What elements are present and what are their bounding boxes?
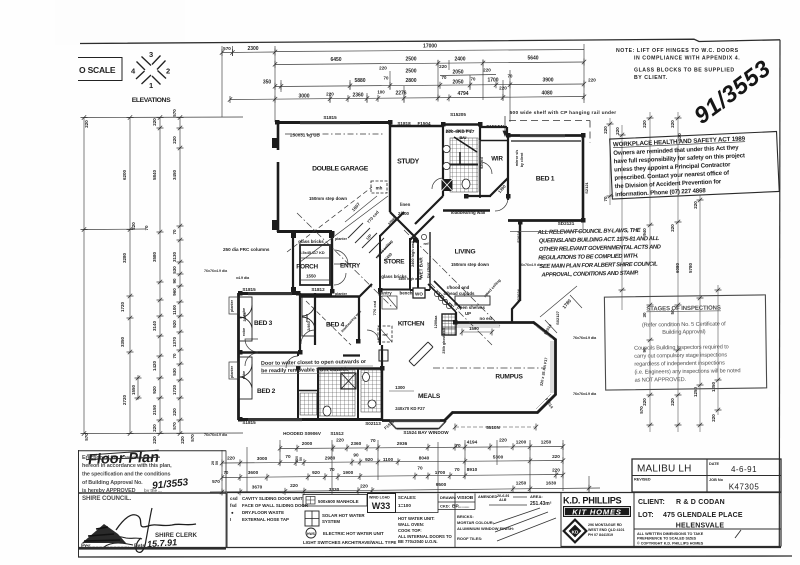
living east wall — [519, 222, 521, 301]
svg-text:5840: 5840 — [152, 169, 157, 180]
svg-text:HOT WATER UNIT:: HOT WATER UNIT: — [398, 516, 435, 521]
svg-text:1: 1 — [149, 81, 153, 90]
svg-text:open shelves: open shelves — [457, 305, 485, 310]
svg-text:2276: 2276 — [395, 91, 406, 97]
ensuite tiled floor — [450, 138, 478, 192]
manhole box — [371, 181, 387, 193]
svg-text:220: 220 — [180, 436, 185, 444]
svg-text:W33: W33 — [372, 501, 391, 511]
svg-text:17000: 17000 — [423, 44, 437, 50]
svg-text:70: 70 — [508, 74, 513, 79]
svg-text:1100: 1100 — [172, 305, 177, 315]
svg-text:PORCH: PORCH — [296, 264, 318, 271]
svg-text:220: 220 — [499, 86, 507, 91]
svg-text:2: 2 — [166, 67, 170, 76]
svg-text:6450: 6450 — [330, 57, 341, 63]
rumpus inner window lines — [455, 325, 553, 411]
svg-text:220: 220 — [552, 454, 560, 459]
bed4 dashed loadbearing diagonal — [306, 301, 351, 345]
svg-text:1420: 1420 — [152, 360, 157, 371]
svg-text:76x76x4.9 dia: 76x76x4.9 dia — [573, 336, 597, 340]
study walls — [390, 125, 443, 128]
svg-text:220→5KD F17: 220→5KD F17 — [446, 128, 473, 133]
svg-text:475 GLENDALE PLACE: 475 GLENDALE PLACE — [663, 512, 743, 519]
svg-text:3280: 3280 — [122, 252, 127, 263]
svg-text:ENTRY: ENTRY — [340, 263, 361, 270]
svg-text:VISIOB: VISIOB — [457, 495, 474, 501]
svg-text:70: 70 — [442, 75, 447, 80]
svg-text:2500: 2500 — [405, 57, 416, 63]
svg-text:3000: 3000 — [298, 94, 309, 100]
svg-text:76x76x4.9 dia: 76x76x4.9 dia — [573, 392, 597, 396]
svg-text:SD2121: SD2121 — [558, 221, 575, 226]
svg-text:DOUBLE GARAGE: DOUBLE GARAGE — [312, 166, 369, 173]
svg-text:3130: 3130 — [172, 251, 177, 262]
svg-text:70: 70 — [370, 438, 376, 443]
workplace health and safety stamp — [610, 131, 780, 199]
svg-text:AMENDED: AMENDED — [478, 495, 497, 499]
svg-text:S2024: S2024 — [516, 288, 521, 300]
svg-text:570: 570 — [223, 46, 231, 51]
svg-text:220: 220 — [552, 468, 560, 473]
svg-text:planter: planter — [335, 292, 348, 296]
svg-text:220: 220 — [152, 118, 157, 126]
svg-text:UP: UP — [465, 311, 471, 316]
svg-text:220: 220 — [336, 438, 344, 443]
eave line below bed1 — [510, 222, 583, 232]
svg-text:2720: 2720 — [122, 394, 127, 405]
svg-text:KITCHEN: KITCHEN — [398, 321, 425, 328]
door to water closet note — [261, 359, 367, 374]
svg-text:3000: 3000 — [257, 456, 268, 461]
svg-text:csd: csd — [230, 496, 238, 501]
svg-text:1500: 1500 — [469, 326, 479, 331]
ensuite fixtures — [443, 145, 450, 152]
svg-text:220: 220 — [152, 424, 157, 432]
svg-text:70: 70 — [454, 467, 460, 472]
svg-text:IN COMPLIANCE WITH APPENDIX 4.: IN COMPLIANCE WITH APPENDIX 4. — [634, 56, 740, 62]
svg-text:3670: 3670 — [252, 485, 263, 490]
wir walls — [480, 127, 507, 136]
svg-text:570: 570 — [212, 479, 220, 484]
svg-text:250 dia FRC columns: 250 dia FRC columns — [223, 247, 270, 252]
approval block frame — [78, 450, 226, 557]
svg-text:90: 90 — [172, 278, 177, 284]
svg-text:the specification and the cond: the specification and the conditions — [82, 472, 170, 478]
svg-text:R & D CODAN: R & D CODAN — [676, 499, 725, 506]
svg-text:2936: 2936 — [397, 441, 408, 446]
svg-text:KD: KD — [572, 530, 579, 535]
svg-text:220: 220 — [603, 126, 608, 134]
svg-text:150mm step down: 150mm step down — [309, 196, 347, 201]
svg-text:DRAWN:: DRAWN: — [440, 495, 456, 500]
svg-text:.........: ......... — [459, 504, 469, 509]
svg-text:S1815: S1815 — [242, 287, 256, 292]
svg-text:570: 570 — [639, 406, 644, 414]
svg-text:70: 70 — [603, 196, 608, 202]
porch inner walls — [300, 245, 330, 285]
svg-text:HWS: HWS — [307, 532, 316, 536]
svg-text:1720: 1720 — [172, 384, 177, 395]
svg-text:CKD:: CKD: — [440, 504, 450, 509]
drawing frame top border — [80, 39, 780, 43]
svg-text:570: 570 — [190, 434, 195, 442]
svg-text:ROOF TILES:: ROOF TILES: — [457, 536, 482, 541]
svg-text:5510N: 5510N — [486, 425, 500, 430]
svg-text:K47305: K47305 — [729, 483, 760, 492]
svg-text:250x31 kg UB: 250x31 kg UB — [290, 133, 321, 138]
svg-text:220: 220 — [615, 127, 620, 135]
svg-text:by client: by client — [520, 152, 524, 167]
svg-text:220: 220 — [84, 120, 89, 128]
svg-text:bench: bench — [400, 291, 413, 296]
legend texts left column — [230, 496, 309, 522]
svg-text:LIVING: LIVING — [455, 249, 476, 256]
svg-text:O SCALE: O SCALE — [79, 65, 116, 75]
svg-text:530: 530 — [172, 266, 177, 274]
svg-text:GLASS BLOCKS TO BE SUPPLIED: GLASS BLOCKS TO BE SUPPLIED — [634, 68, 735, 74]
svg-text:robe: robe — [242, 328, 246, 336]
svg-text:76x76x4.9 dia: 76x76x4.9 dia — [204, 433, 228, 437]
svg-text:CAVITY SLIDING DOOR UNIT: CAVITY SLIDING DOOR UNIT — [242, 496, 303, 501]
svg-text:2980: 2980 — [325, 456, 336, 461]
svg-text:4-6-91: 4-6-91 — [731, 465, 757, 474]
svg-text:fsd: fsd — [230, 503, 237, 508]
bathroom tiled floor — [319, 370, 355, 416]
council by-laws note — [537, 227, 663, 278]
svg-text:LOT:: LOT: — [638, 512, 654, 519]
laundry tiled floor — [300, 393, 317, 415]
svg-text:2500: 2500 — [405, 69, 416, 75]
svg-text:2400: 2400 — [454, 57, 465, 63]
svg-text:S02127: S02127 — [555, 310, 560, 325]
svg-text:220: 220 — [483, 68, 491, 73]
svg-text:220: 220 — [227, 456, 235, 461]
scales box — [396, 494, 439, 513]
shelf leader arrow — [503, 116, 507, 136]
entry stairs — [348, 223, 391, 258]
garage UB dashed beam — [285, 133, 385, 135]
bed1 shelf dashed line — [509, 121, 590, 144]
svg-text:PH 07 8441519: PH 07 8441519 — [588, 533, 613, 537]
svg-text:mh: mh — [376, 186, 383, 191]
svg-text:5640: 5640 — [527, 56, 538, 62]
svg-text:230h ghost wall: 230h ghost wall — [442, 328, 446, 353]
legend box frame — [78, 493, 781, 548]
svg-text:(Refer condition No. 5 Certifi: (Refer condition No. 5 Certificate of — [642, 321, 726, 328]
svg-text:8.5x45 117 KD: 8.5x45 117 KD — [299, 251, 325, 255]
svg-text:is hereby APPROVED: is hereby APPROVED — [82, 488, 136, 494]
svg-text:ALUMINIUM WINDOW FINISH:: ALUMINIUM WINDOW FINISH: — [457, 526, 514, 531]
svg-text:90: 90 — [353, 453, 359, 458]
cooktop diagonal bench — [428, 281, 461, 312]
svg-text:ELECTRIC HOT WATER UNIT: ELECTRIC HOT WATER UNIT — [323, 531, 384, 536]
wc tiled floor — [361, 370, 382, 412]
svg-text:KIT HOMES: KIT HOMES — [572, 508, 621, 517]
svg-text:2360: 2360 — [351, 441, 362, 446]
svg-text:COOK TOP:: COOK TOP: — [398, 528, 422, 533]
svg-text:220: 220 — [439, 64, 447, 69]
svg-text:planter: planter — [230, 299, 234, 312]
svg-text:planter: planter — [230, 365, 234, 378]
svg-text:220: 220 — [711, 414, 716, 422]
svg-text:70: 70 — [471, 77, 476, 82]
svg-text:BED 2: BED 2 — [257, 388, 276, 395]
svg-text:220: 220 — [642, 398, 647, 406]
svg-text:70: 70 — [384, 76, 389, 81]
svg-text:1630: 1630 — [546, 481, 557, 486]
meals bench L — [409, 342, 433, 366]
shower dark box — [341, 373, 356, 389]
title block frame — [561, 459, 781, 547]
fridge box — [378, 326, 392, 342]
svg-text:8040: 8040 — [419, 456, 430, 461]
meals bay window protrusion — [389, 421, 446, 429]
svg-text:DRY.FLOOR WASTE: DRY.FLOOR WASTE — [242, 510, 284, 515]
svg-text:PREFERENCE TO SCALED SIZES: PREFERENCE TO SCALED SIZES — [637, 537, 697, 541]
svg-text:3400 high wall: 3400 high wall — [399, 277, 422, 281]
svg-text:1700: 1700 — [435, 470, 446, 475]
svg-text:BED 1: BED 1 — [536, 176, 555, 183]
svg-text:JOB No: JOB No — [709, 478, 724, 482]
svg-text:WEST END QLD 4101: WEST END QLD 4101 — [588, 528, 625, 532]
room labels — [254, 156, 555, 401]
svg-text:1900: 1900 — [343, 470, 354, 475]
svg-text:S1524 BAY WINDOW: S1524 BAY WINDOW — [403, 430, 449, 435]
hall diagonal walls near study — [390, 212, 418, 240]
svg-text:MALIBU LH: MALIBU LH — [637, 464, 692, 475]
svg-text:ref: ref — [423, 241, 429, 246]
diagonal dimension 1780 — [540, 286, 577, 317]
svg-text:WO: WO — [415, 292, 423, 297]
top dimension lines — [222, 44, 584, 122]
svg-text:1200aa: 1200aa — [434, 315, 438, 329]
svg-text:Building Approval): Building Approval) — [662, 329, 706, 336]
handwritten job number 91/3553 — [689, 55, 775, 129]
svg-text:STAGES OF INSPECTIONS: STAGES OF INSPECTIONS — [646, 305, 721, 312]
svg-text:70: 70 — [329, 467, 335, 472]
svg-text:S02113: S02113 — [365, 421, 381, 426]
manhole legend — [303, 495, 367, 507]
bottom dimension lines — [210, 440, 600, 495]
svg-text:ELEVATIONS: ELEVATIONS — [132, 97, 171, 104]
svg-text:WIR: WIR — [491, 156, 503, 163]
solar legend — [305, 511, 319, 526]
note text — [616, 48, 740, 81]
svg-text:220: 220 — [642, 120, 647, 128]
svg-text:4080: 4080 — [541, 91, 552, 97]
svg-text:220: 220 — [172, 408, 177, 416]
svg-text:SHIRE COUNCIL.: SHIRE COUNCIL. — [82, 495, 132, 502]
svg-text:by client: by client — [427, 262, 431, 278]
svg-text:BRICKS:: BRICKS: — [457, 514, 474, 519]
svg-text:STUDY: STUDY — [397, 159, 420, 166]
svg-text:2050: 2050 — [452, 70, 463, 76]
svg-text:8910: 8910 — [467, 467, 478, 472]
svg-text:220: 220 — [499, 438, 507, 443]
svg-text:REVISED: REVISED — [634, 478, 651, 482]
svg-text:WIND LOAD: WIND LOAD — [369, 496, 390, 500]
svg-text:loadbearing wall: loadbearing wall — [451, 210, 485, 215]
svg-text:RUMPUS: RUMPUS — [495, 374, 523, 381]
handwritten approval number — [152, 477, 190, 492]
svg-text:350: 350 — [263, 80, 272, 86]
store walls — [378, 238, 410, 270]
svg-text:EXTERNAL HOSE TAP: EXTERNAL HOSE TAP — [242, 517, 289, 522]
svg-text:HELENSVALE: HELENSVALE — [676, 523, 725, 530]
svg-text:2400 high wall: 2400 high wall — [411, 241, 415, 267]
svg-text:1100: 1100 — [383, 457, 394, 462]
svg-text:2300: 2300 — [247, 46, 258, 52]
svg-text:5880: 5880 — [354, 78, 365, 84]
svg-text:2360: 2360 — [352, 93, 363, 99]
svg-text:50: 50 — [215, 461, 219, 465]
svg-text:1720: 1720 — [120, 301, 125, 312]
garage step dashed diagonal — [287, 187, 372, 252]
svg-text:960: 960 — [172, 288, 177, 296]
windows thin lines — [248, 122, 565, 422]
svg-text:mirror s/s: mirror s/s — [515, 150, 519, 167]
svg-text:1250: 1250 — [516, 481, 527, 486]
svg-text:4194: 4194 — [467, 440, 478, 445]
svg-text:500x600 MANHOLE: 500x600 MANHOLE — [318, 499, 359, 504]
kitchen east wall/shelves — [455, 312, 457, 323]
svg-text:220: 220 — [360, 484, 368, 489]
svg-text:pantry: pantry — [378, 291, 392, 296]
svg-text:220: 220 — [670, 120, 675, 128]
svg-text:3350: 3350 — [120, 336, 125, 347]
svg-text:220: 220 — [693, 201, 698, 209]
bed1 walls — [508, 134, 583, 137]
svg-text:220: 220 — [588, 78, 596, 83]
svg-text:920 od: 920 od — [480, 157, 484, 168]
svg-text:F1504W: F1504W — [486, 124, 504, 129]
svg-text:1250: 1250 — [711, 381, 716, 392]
svg-text:220: 220 — [670, 398, 675, 406]
living north wall — [443, 209, 490, 212]
svg-text:SCALES:: SCALES: — [398, 495, 416, 500]
svg-text:220: 220 — [379, 66, 387, 71]
svg-text:LIGHT SWITCHES ARCHITRAVE/WALL: LIGHT SWITCHES ARCHITRAVE/WALL TYPE — [303, 540, 396, 545]
bed1 inner wall face — [511, 140, 581, 142]
small annotations — [223, 196, 493, 411]
svg-text:4794: 4794 — [457, 91, 468, 97]
svg-text:1250: 1250 — [541, 440, 552, 445]
svg-text:1=100: 1=100 — [398, 503, 411, 508]
svg-text:920: 920 — [152, 386, 157, 394]
svg-text:70: 70 — [417, 466, 423, 471]
svg-text:1700: 1700 — [487, 78, 498, 84]
sheet bottom line — [78, 556, 792, 557]
right column notes — [398, 516, 452, 544]
svg-text:70: 70 — [172, 229, 177, 235]
svg-text:100: 100 — [377, 90, 385, 95]
bath fixtures — [363, 373, 370, 382]
svg-text:FACE OF WALL SLIDING DOOR: FACE OF WALL SLIDING DOOR — [242, 503, 309, 508]
pantry box — [382, 296, 397, 309]
svg-text:S15205: S15205 — [450, 112, 466, 117]
svg-text:920: 920 — [365, 457, 373, 462]
svg-text:●: ● — [231, 510, 234, 515]
svg-text:570: 570 — [172, 422, 177, 430]
svg-text:70: 70 — [144, 225, 149, 231]
bed4 east wall + hall — [358, 297, 360, 341]
svg-text:3580: 3580 — [152, 251, 157, 262]
beds block outer walls — [238, 292, 300, 295]
svg-text:70: 70 — [455, 443, 461, 448]
svg-text:BE 770x2040 U.O.N.: BE 770x2040 U.O.N. — [398, 539, 438, 544]
svg-text:530: 530 — [172, 368, 177, 376]
door arcs — [245, 162, 508, 368]
svg-text:F2024: F2024 — [516, 231, 521, 243]
svg-text:planter: planter — [335, 237, 348, 241]
svg-text:251.43m²: 251.43m² — [530, 501, 552, 507]
signature scribbles — [100, 508, 196, 552]
svg-text:x4.9 dia: x4.9 dia — [236, 276, 250, 280]
svg-text:770 csd: 770 csd — [372, 300, 377, 315]
svg-text:F1504: F1504 — [417, 121, 430, 126]
left dimension column lines — [84, 117, 243, 434]
svg-text:220: 220 — [670, 224, 675, 232]
Floor Plan handwritten title — [86, 450, 161, 469]
svg-text:940: 940 — [642, 228, 647, 236]
svg-text:6080: 6080 — [675, 262, 680, 273]
svg-text:3900: 3900 — [542, 78, 553, 84]
svg-text:1200: 1200 — [516, 440, 527, 445]
svg-text:76x76x4.9 dia: 76x76x4.9 dia — [519, 263, 543, 267]
svg-text:920: 920 — [172, 320, 177, 328]
svg-text:ALL WRITTEN DIMENSIONS TO TAKE: ALL WRITTEN DIMENSIONS TO TAKE — [637, 532, 704, 536]
kitchen/meals west walls — [381, 370, 383, 421]
svg-text:220: 220 — [290, 483, 298, 488]
svg-text:570: 570 — [172, 109, 177, 117]
svg-text:9500: 9500 — [436, 482, 447, 487]
client block — [638, 499, 743, 530]
svg-text:DATE: DATE — [709, 462, 720, 466]
svg-text:3: 3 — [149, 50, 153, 59]
svg-text:2800: 2800 — [405, 78, 416, 84]
svg-text:BED 3: BED 3 — [254, 320, 273, 327]
wo black box — [413, 288, 425, 298]
svg-text:500 wide shelf with CP hanging: 500 wide shelf with CP hanging rail unde… — [510, 110, 617, 116]
svg-text:robe: robe — [305, 314, 309, 322]
dark scribble triangle — [82, 524, 126, 543]
robe boxes — [239, 296, 490, 399]
svg-text:220: 220 — [326, 92, 334, 97]
stages of inspections stamp — [604, 295, 766, 390]
garage walls — [238, 122, 583, 421]
svg-text:MORTAR COLOUR:: MORTAR COLOUR: — [457, 520, 494, 525]
fine print — [637, 532, 704, 546]
svg-text:SOLAR HOT WATER: SOLAR HOT WATER — [322, 513, 365, 518]
svg-text:2000: 2000 — [302, 441, 313, 446]
svg-text:30: 30 — [642, 312, 647, 318]
svg-text:AREA:: AREA: — [530, 494, 543, 499]
NOT TO SCALE box — [78, 58, 122, 81]
svg-text:glass bricks: glass bricks — [298, 239, 324, 244]
svg-text:linen: linen — [400, 202, 411, 207]
svg-text:220: 220 — [131, 222, 136, 230]
svg-text:ALB: ALB — [498, 498, 507, 502]
br box — [379, 350, 388, 361]
svg-text:r/hood and: r/hood and — [447, 285, 470, 290]
svg-text:220: 220 — [152, 436, 157, 444]
svg-text:150mm step down: 150mm step down — [451, 262, 489, 267]
svg-text:o/head cupbds: o/head cupbds — [444, 291, 476, 296]
svg-text:3140: 3140 — [152, 320, 157, 331]
svg-text:240x70 KD F27: 240x70 KD F27 — [395, 406, 425, 411]
hws legend — [306, 528, 316, 538]
